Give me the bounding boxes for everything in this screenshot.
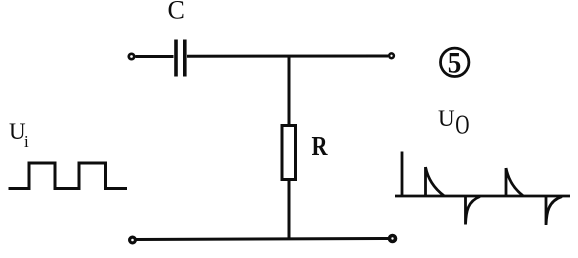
waveform Uo axis vertical <box>401 152 404 198</box>
terminal right-bottom <box>390 236 396 242</box>
svg-text:C: C <box>168 0 185 25</box>
waveform Uo baseline <box>395 195 570 198</box>
waveform Uo negative spike 2 <box>546 196 562 226</box>
wire top-right segment <box>187 55 388 58</box>
capacitor C <box>174 40 178 77</box>
svg-text:U: U <box>438 106 455 131</box>
wire vertical upper <box>288 56 291 126</box>
resistor R <box>282 126 296 180</box>
wire vertical lower <box>288 179 291 239</box>
terminal left-top <box>129 54 134 59</box>
svg-text:i: i <box>24 132 29 151</box>
waveform Uo negative spike 1 <box>466 196 481 225</box>
waveform Ui (square wave) <box>9 163 128 189</box>
circled 5 <box>441 48 469 76</box>
wire top-left segment <box>136 55 174 58</box>
wire bottom <box>136 239 389 240</box>
waveform Uo positive spike 2 <box>506 168 523 197</box>
svg-text:R: R <box>312 132 329 162</box>
svg-text:O: O <box>455 111 469 141</box>
terminal right-top <box>389 53 394 58</box>
svg-text:5: 5 <box>448 47 461 80</box>
terminal left-bottom <box>130 237 136 243</box>
waveform Uo positive spike 1 <box>426 167 445 197</box>
